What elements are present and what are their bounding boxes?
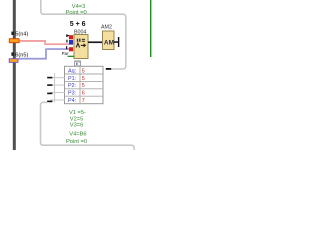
svg-text:P4:: P4: <box>68 98 76 104</box>
svg-text:6: 6 <box>82 91 85 97</box>
wire: marker AI6 to B004 pin3 (blue analog) <box>18 48 69 59</box>
green page-border line (right) <box>150 0 151 57</box>
svg-text:V4=B6: V4=B6 <box>69 131 86 137</box>
value table frame <box>65 66 104 103</box>
wire B004 output to AM2 <box>88 41 103 43</box>
svg-text:5: 5 <box>82 68 85 74</box>
AM2 output cut tick <box>118 37 119 47</box>
B004 pin1 stub (unconnected) <box>66 34 69 37</box>
svg-text:V3=6: V3=6 <box>70 123 83 129</box>
svg-text:V1 =5-: V1 =5- <box>69 110 86 116</box>
cut tick P3 <box>47 93 52 95</box>
svg-text:6(n5): 6(n5) <box>15 52 28 58</box>
block B004 (math instruction) <box>74 35 88 59</box>
gray reference wire loop (top) <box>41 0 126 69</box>
cut tick P4 <box>47 101 52 103</box>
svg-text:5: 5 <box>82 76 85 82</box>
B004 Par pin green reference wire <box>68 56 75 57</box>
node label 6(n5) <box>11 52 28 58</box>
svg-text:5 + 6: 5 + 6 <box>70 21 86 28</box>
vertical bus bar (left rail) <box>13 0 16 150</box>
svg-text:P3:: P3: <box>68 91 76 97</box>
svg-text:AM: AM <box>104 39 114 46</box>
svg-text:P2:: P2: <box>68 83 76 89</box>
cut tick P1 <box>47 77 52 79</box>
svg-text:V2=5: V2=5 <box>70 116 83 122</box>
connector marker AI5 <box>9 39 19 43</box>
B004 icon <box>77 39 85 42</box>
connector marker AI6 <box>9 59 18 63</box>
B004 pin1 state square (red) <box>69 35 73 39</box>
svg-text:AM2: AM2 <box>101 24 112 30</box>
cut tick at table input <box>106 68 111 70</box>
svg-text:7: 7 <box>82 98 85 104</box>
svg-text:Aq:: Aq: <box>68 68 76 74</box>
wire: marker AI5 to B004 pin2 (pink analog) <box>20 40 70 45</box>
svg-text:V4=3: V4=3 <box>72 4 85 10</box>
svg-text:5(n4): 5(n4) <box>15 32 28 38</box>
svg-text:Par: Par <box>62 51 69 56</box>
table row lines <box>65 74 104 96</box>
B004 pin2 stub <box>66 40 67 43</box>
block AM2 (analog marker) <box>103 31 115 50</box>
table column divider <box>79 66 81 103</box>
svg-text:Point =0: Point =0 <box>66 10 87 16</box>
parameter window icon <box>75 61 81 66</box>
svg-text:Point =0: Point =0 <box>66 139 87 145</box>
B004 pin3 stub <box>66 46 67 49</box>
B004 pin2 state square (blue) <box>69 40 73 45</box>
B004 pin3 state square (red) <box>69 47 73 51</box>
gray reference wire loop (bottom) <box>41 102 135 150</box>
node label 5(n4) <box>11 32 28 38</box>
cut tick P2 <box>47 84 52 86</box>
svg-text:P1:: P1: <box>68 76 76 82</box>
AM2 output stub <box>114 41 118 43</box>
gray reference comb left of table <box>50 73 65 102</box>
svg-text:5: 5 <box>82 83 85 89</box>
